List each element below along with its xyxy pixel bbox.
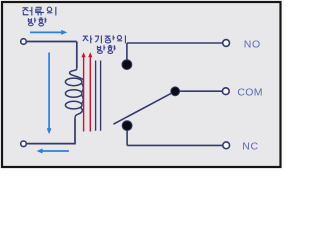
coil connector 1-2 <box>82 83 84 92</box>
border frame of schematic panel <box>2 2 281 167</box>
core line 2 (navy) <box>100 61 102 131</box>
wire NC horizontal <box>127 144 222 146</box>
switch arm (common pole) <box>113 91 175 124</box>
terminal NC <box>223 142 230 149</box>
label 방향 (direction) under it <box>97 45 115 53</box>
wire left vertical from coil <box>74 118 76 143</box>
coil loop 3 <box>65 101 82 109</box>
wire COM horizontal <box>180 90 223 92</box>
terminal T2 (bottom left) <box>21 141 27 147</box>
label 자기장의 (magnetic field) <box>83 35 126 43</box>
NC contact dot <box>122 121 132 131</box>
wire NO horizontal <box>127 42 222 44</box>
svg-text:NC: NC <box>242 141 258 153</box>
wire NO contact drop <box>126 43 128 60</box>
current arrow bottom (blue, pointing left) <box>37 149 69 154</box>
terminal T1 (top left) <box>21 39 27 45</box>
wire NC drop <box>126 131 128 146</box>
NO contact dot <box>122 60 132 70</box>
terminal COM <box>222 88 229 95</box>
COM contact dot <box>171 87 180 96</box>
wire right vertical into coil <box>76 42 78 69</box>
wire top horizontal <box>27 41 77 43</box>
magnetic field arrow 1 (red, up) <box>82 52 86 131</box>
coil exit curve <box>75 108 82 119</box>
coil L1 entry curve <box>70 68 84 79</box>
label 전류의 (current) line1 <box>22 7 55 16</box>
coil loop 1 <box>65 78 82 86</box>
wire bottom horizontal <box>27 143 76 145</box>
label 방향 (direction) line2 <box>28 18 46 26</box>
coil connector 2-3 <box>82 95 84 104</box>
coil loop 2 <box>65 90 82 98</box>
svg-text:COM: COM <box>237 87 262 99</box>
current arrow vertical (blue, pointing down) <box>47 53 52 135</box>
magnetic field arrow 2 (red, up) <box>88 52 92 131</box>
svg-text:NO: NO <box>244 38 261 50</box>
core line 1 (navy) <box>95 61 97 131</box>
terminal NO <box>223 40 230 47</box>
current direction arrow (top, blue, pointing right) <box>30 30 67 35</box>
outer white background <box>0 0 284 171</box>
